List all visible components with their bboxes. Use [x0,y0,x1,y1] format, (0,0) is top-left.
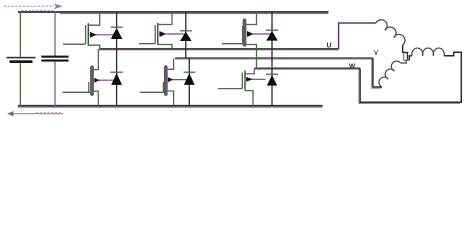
svg-text:W: W [349,63,356,70]
svg-text:U: U [327,42,332,49]
svg-text:V: V [374,51,378,57]
